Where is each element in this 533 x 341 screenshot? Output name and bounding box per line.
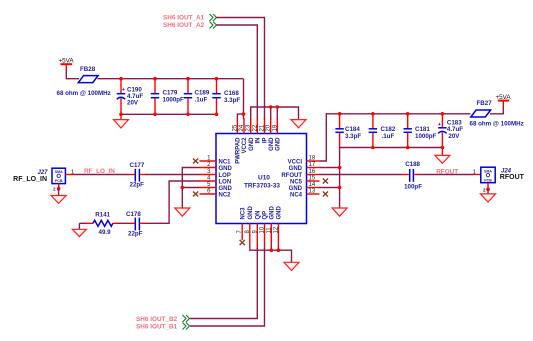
U10 pin 12 GND bbox=[273, 206, 282, 247]
svg-text:TRF3703-33: TRF3703-33 bbox=[244, 183, 280, 190]
resistor R141 bbox=[79, 212, 118, 237]
wire right gnd rail bbox=[340, 147, 443, 149]
svg-text:SH6 IOUT_B1: SH6 IOUT_B1 bbox=[136, 323, 178, 330]
wire pin 2 / pin 5 to ground bbox=[182, 168, 199, 209]
svg-text:PWRPAD: PWRPAD bbox=[236, 137, 242, 164]
svg-text:VCCI: VCCI bbox=[288, 159, 303, 165]
svg-text:RFOUT: RFOUT bbox=[500, 174, 525, 181]
svg-text:C178: C178 bbox=[126, 211, 141, 218]
svg-text:NC2: NC2 bbox=[219, 192, 232, 198]
capacitor C181 bbox=[404, 114, 437, 148]
svg-text:GND: GND bbox=[289, 186, 303, 192]
svg-text:PCB: PCB bbox=[55, 179, 63, 183]
svg-text:GND: GND bbox=[277, 206, 283, 220]
svg-text:SH6 IOUT_B2: SH6 IOUT_B2 bbox=[136, 316, 178, 323]
svg-text:16: 16 bbox=[309, 169, 316, 175]
svg-text:21: 21 bbox=[260, 124, 266, 131]
U10 pin 19 GND bbox=[272, 118, 281, 151]
svg-text:GND: GND bbox=[219, 166, 233, 172]
wire C188 to J24 bbox=[420, 174, 474, 176]
svg-text:FB28: FB28 bbox=[80, 66, 96, 73]
svg-text:U10: U10 bbox=[258, 175, 270, 182]
off-page connector chevron B1 bbox=[183, 323, 190, 330]
capacitor C190 bbox=[117, 79, 144, 115]
svg-text:1000pF: 1000pF bbox=[163, 96, 185, 103]
ground (top, right of chip) bbox=[291, 120, 306, 128]
wire IOUT_A2 to pin 22 bbox=[217, 25, 258, 119]
svg-text:GND: GND bbox=[248, 206, 254, 220]
wire right gnd rail to pins 17/14 and ground bbox=[339, 148, 341, 209]
svg-text:24: 24 bbox=[239, 124, 245, 131]
svg-text:3.3pF: 3.3pF bbox=[224, 97, 240, 104]
U10 pin 25 PWRPAD bbox=[232, 118, 241, 164]
svg-text:18: 18 bbox=[309, 156, 316, 162]
ground (under J24) bbox=[480, 183, 495, 202]
svg-text:RF_LO_IN: RF_LO_IN bbox=[84, 168, 115, 175]
svg-text:14: 14 bbox=[309, 182, 316, 188]
U10 pin 17 GND bbox=[289, 162, 320, 172]
svg-text:GND: GND bbox=[219, 186, 233, 192]
svg-text:C184: C184 bbox=[345, 126, 360, 133]
svg-text:15: 15 bbox=[309, 176, 316, 182]
svg-text:20V: 20V bbox=[127, 99, 139, 106]
capacitor C177 bbox=[130, 162, 146, 189]
svg-text:C182: C182 bbox=[381, 126, 396, 133]
svg-text:LOP: LOP bbox=[219, 173, 231, 179]
wire pin 18 VCCI to right rail bbox=[320, 114, 471, 161]
svg-text:1: 1 bbox=[473, 169, 476, 175]
svg-text:11: 11 bbox=[266, 227, 272, 234]
U10 pin 15 NC5 bbox=[290, 176, 320, 186]
wire +5VA to FB28 bbox=[66, 71, 79, 79]
svg-text:GND: GND bbox=[270, 206, 276, 220]
svg-text:17: 17 bbox=[309, 162, 316, 168]
U10 pin 18 VCCI bbox=[288, 156, 320, 166]
wire J27 pin1 to C177 bbox=[65, 174, 74, 176]
svg-text:FB27: FB27 bbox=[477, 100, 493, 107]
capacitor C183 bbox=[438, 114, 464, 148]
wire ground rail left bbox=[121, 113, 217, 115]
svg-text:LON: LON bbox=[219, 179, 232, 185]
U10 pin 13 NC4 bbox=[290, 189, 320, 199]
svg-text:23: 23 bbox=[246, 124, 252, 131]
no-connect X pin 15 bbox=[323, 179, 328, 184]
svg-text:PCB: PCB bbox=[484, 178, 492, 182]
capacitor C178 bbox=[126, 211, 145, 238]
U10 pin 7 NC3 bbox=[237, 207, 246, 240]
off-page connector chevron A2 bbox=[210, 22, 217, 29]
U10 pin 3 LOP bbox=[200, 169, 231, 179]
U10 pin 14 GND bbox=[289, 182, 320, 192]
svg-text:VCC2: VCC2 bbox=[242, 137, 248, 154]
svg-text:C168: C168 bbox=[224, 90, 239, 97]
svg-text:C188: C188 bbox=[405, 161, 420, 168]
ferrite bead FB28 bbox=[78, 66, 98, 83]
ferrite bead FB27 bbox=[471, 100, 492, 117]
U10 pin 16 RFOUT bbox=[281, 169, 319, 179]
U10 pin 22 IN bbox=[252, 118, 261, 144]
svg-text:GND: GND bbox=[249, 137, 255, 151]
svg-text:22pF: 22pF bbox=[128, 231, 143, 238]
capacitor C184 bbox=[335, 114, 361, 148]
svg-text:12: 12 bbox=[273, 226, 279, 233]
svg-text:C177: C177 bbox=[130, 162, 145, 169]
svg-text:49.9: 49.9 bbox=[99, 229, 112, 236]
capacitor C188 bbox=[402, 161, 423, 190]
wire IOUT_A1 to pin 21 bbox=[217, 18, 265, 120]
U10 pin 20 GND bbox=[266, 118, 275, 151]
U10 pin 8 GND bbox=[245, 206, 254, 247]
U10 pin 11 GND bbox=[266, 206, 275, 247]
junction dot pin5 gnd bbox=[181, 186, 185, 190]
no-connect X pin 13 bbox=[323, 192, 328, 197]
U10 pin 23 GND bbox=[246, 118, 255, 151]
no-connect X pin 1 bbox=[193, 159, 198, 164]
svg-text:SMA: SMA bbox=[55, 170, 63, 174]
svg-text:13: 13 bbox=[309, 189, 316, 195]
wire pin 16 RFOUT to C188 bbox=[320, 174, 402, 176]
svg-text:IN: IN bbox=[256, 138, 262, 144]
wire C178 to pin 4 bbox=[145, 181, 200, 223]
U10 pin 5 GND bbox=[200, 182, 233, 192]
wire top rail left bbox=[98, 78, 244, 80]
connector J24 bbox=[473, 167, 525, 183]
wire C177 to pin 3 bbox=[145, 174, 200, 176]
no-connect X pin 6 bbox=[193, 192, 198, 197]
U10 pin 6 NC2 bbox=[200, 189, 232, 199]
svg-text:RFOUT: RFOUT bbox=[436, 168, 458, 175]
svg-text:25: 25 bbox=[232, 124, 238, 131]
U10 pin 4 LON bbox=[200, 176, 232, 186]
ground (below pin 5 net) bbox=[175, 208, 190, 216]
svg-text:68 ohm @ 100MHz: 68 ohm @ 100MHz bbox=[57, 90, 111, 97]
svg-text:20V: 20V bbox=[448, 133, 460, 140]
wire bottom GND bus (pins 8,11,12) bbox=[250, 246, 292, 262]
svg-text:J27: J27 bbox=[37, 170, 48, 176]
svg-text:NC4: NC4 bbox=[290, 192, 303, 198]
svg-text:.1uF: .1uF bbox=[382, 133, 395, 140]
svg-text:GND: GND bbox=[276, 137, 282, 151]
U10 pin 21 IP bbox=[260, 118, 269, 143]
svg-text:NC3: NC3 bbox=[240, 207, 246, 220]
wire top GND net (pins 23,20,19) bbox=[251, 107, 299, 120]
U10 pin 1 NC1 bbox=[200, 156, 232, 166]
svg-text:SH6 IOUT_A2: SH6 IOUT_A2 bbox=[163, 22, 205, 29]
svg-text:19: 19 bbox=[272, 124, 278, 131]
ground (below right gnd rail) bbox=[332, 208, 347, 216]
junction dots right rails bbox=[338, 112, 444, 189]
svg-text:GND: GND bbox=[289, 166, 303, 172]
off-page connector chevron B2 bbox=[183, 315, 190, 322]
U10 pin 10 QP bbox=[260, 211, 269, 249]
svg-text:IP: IP bbox=[263, 138, 269, 144]
svg-text:SH6 IOUT_A1: SH6 IOUT_A1 bbox=[163, 14, 205, 21]
junction dots bottom bus bbox=[270, 248, 281, 252]
svg-text:NC5: NC5 bbox=[290, 179, 303, 185]
capacitor C179 bbox=[151, 79, 184, 115]
junction dots top gnd bbox=[242, 105, 279, 116]
no-connect X pin 7 bbox=[240, 240, 245, 245]
capacitor C168 bbox=[212, 79, 240, 115]
svg-text:1000pF: 1000pF bbox=[415, 133, 437, 140]
U10 pin 9 QN bbox=[252, 211, 261, 250]
U10 pin 24 VCC2 bbox=[239, 118, 248, 154]
svg-text:GND: GND bbox=[269, 137, 275, 151]
ground (left of R141) bbox=[72, 223, 86, 236]
svg-text:RFOUT: RFOUT bbox=[281, 173, 302, 179]
power +5VA (right) bbox=[496, 94, 512, 107]
ground (bottom, right of chip) bbox=[284, 262, 299, 270]
svg-text:10: 10 bbox=[260, 226, 266, 233]
capacitor C182 bbox=[369, 114, 396, 148]
svg-text:QP: QP bbox=[263, 211, 269, 220]
svg-text:NC1: NC1 bbox=[219, 159, 232, 165]
power +5VA (left) bbox=[59, 58, 75, 72]
ground (under J27) bbox=[51, 184, 66, 204]
ground (under C183) bbox=[435, 148, 450, 164]
svg-text:3.3pF: 3.3pF bbox=[345, 133, 361, 140]
ground (under C190) bbox=[114, 114, 129, 128]
U10 pin 2 GND bbox=[200, 162, 233, 172]
svg-text:100pF: 100pF bbox=[404, 183, 422, 190]
svg-text:QN: QN bbox=[256, 211, 262, 220]
wire rail to pins 24/25 bbox=[237, 79, 243, 119]
op-amp/modulator U10 body bbox=[216, 134, 307, 224]
off-page connector chevron A1 bbox=[210, 14, 217, 21]
svg-text:68 ohm @ 100MHz: 68 ohm @ 100MHz bbox=[470, 121, 524, 128]
capacitor C189 bbox=[184, 79, 210, 115]
svg-text:20: 20 bbox=[266, 124, 272, 131]
connector J27 bbox=[13, 168, 74, 183]
junction dots left rails bbox=[119, 77, 218, 116]
wire R141 to C178 bbox=[118, 222, 130, 224]
svg-text:C181: C181 bbox=[415, 126, 430, 133]
svg-text:22pF: 22pF bbox=[130, 182, 145, 189]
svg-text:22: 22 bbox=[252, 124, 258, 131]
wire IOUT_B1 to pin 10 bbox=[190, 248, 265, 326]
wire IOUT_B2 to pin 9 bbox=[190, 248, 257, 319]
svg-text:RF_LO_IN: RF_LO_IN bbox=[13, 176, 47, 183]
svg-text:.1uF: .1uF bbox=[195, 96, 208, 103]
svg-text:SMA: SMA bbox=[484, 169, 492, 173]
wire FB27 to +5VA bbox=[490, 106, 503, 114]
svg-text:R141: R141 bbox=[95, 212, 110, 219]
